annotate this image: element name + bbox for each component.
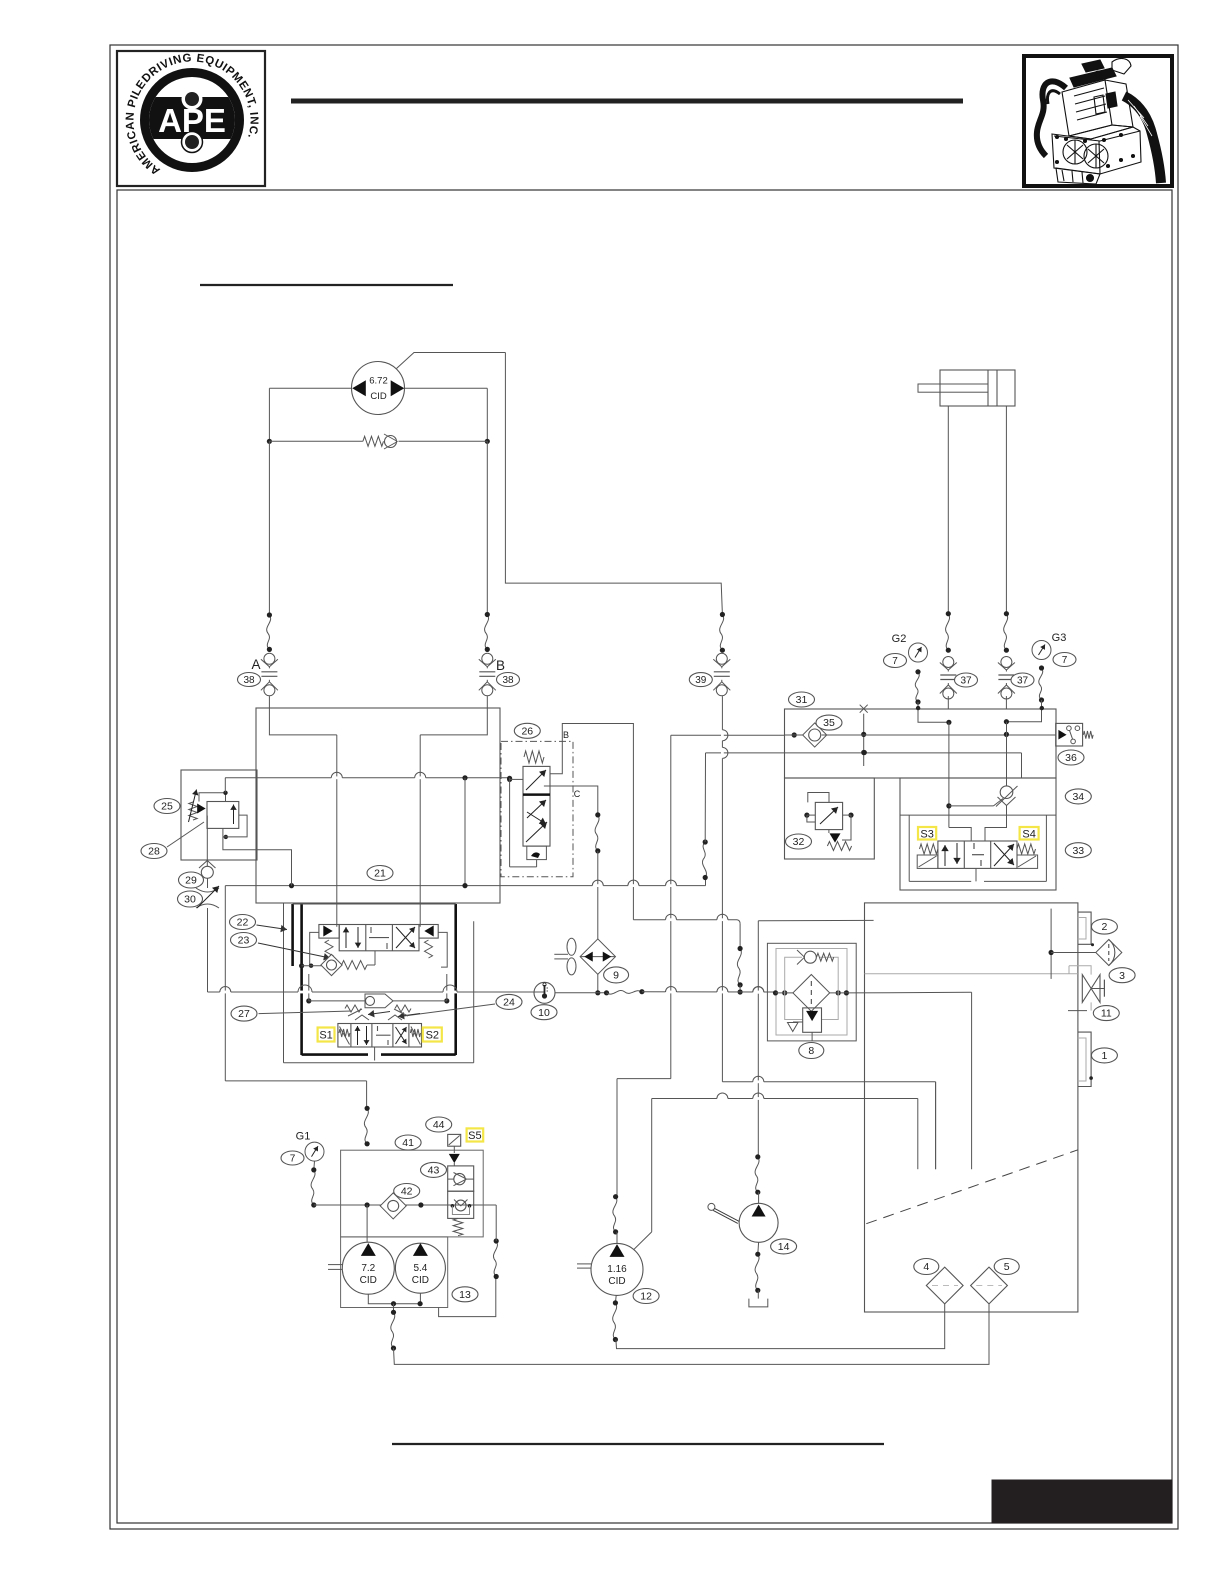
- leader 23: [258, 943, 330, 958]
- balloon 12: [633, 1289, 659, 1304]
- wire A work line down: [336, 735, 338, 927]
- hose pump suction: [391, 1312, 395, 1348]
- valve26 B drop to drain hose: [633, 919, 737, 921]
- svg-text:A: A: [251, 657, 260, 672]
- check ball 34: [946, 786, 1017, 809]
- hose cylinder cap line: [1004, 614, 1008, 651]
- header logo box: [117, 51, 265, 186]
- balloon 37: [1011, 673, 1034, 687]
- balloon 5: [994, 1259, 1019, 1275]
- directional valve 22: [309, 925, 447, 968]
- svg-text:CID: CID: [608, 1276, 625, 1287]
- balloon 25: [154, 799, 180, 814]
- wire coupling 37 right to manifold: [1005, 696, 1007, 708]
- balloon 7: [884, 654, 907, 668]
- svg-text:5: 5: [1004, 1261, 1010, 1273]
- main content box: [117, 190, 1172, 1523]
- solenoid S5 valve 44: [448, 1134, 461, 1166]
- svg-text:42: 42: [401, 1186, 413, 1198]
- cross mark X on block 31: [860, 705, 868, 713]
- balloon 11: [1093, 1006, 1119, 1021]
- hose case drain: [493, 1241, 497, 1277]
- balloon 2: [1091, 919, 1117, 934]
- balloon 9: [604, 967, 629, 983]
- svg-text:13: 13: [459, 1289, 471, 1301]
- balloon 1: [1091, 1048, 1117, 1063]
- balloon 8: [799, 1043, 824, 1059]
- svg-text:8: 8: [808, 1045, 814, 1057]
- hose pump pressure: [364, 1108, 368, 1144]
- svg-text:C: C: [574, 789, 581, 799]
- needle valve 30: [196, 886, 219, 908]
- balloon 28: [141, 844, 167, 859]
- tank dip tube from line y1081: [935, 1082, 937, 1169]
- svg-text:2: 2: [1101, 921, 1107, 933]
- cooler 9 with fan: [554, 938, 615, 975]
- APE logo: [124, 52, 259, 178]
- balloon 43: [421, 1162, 447, 1177]
- pressure switch 36: [1056, 723, 1093, 746]
- bold sub-block frame: [284, 903, 474, 1063]
- pump pressure line to sub-block: [225, 886, 366, 1109]
- header picture box: [1024, 56, 1172, 186]
- pump drive shaft: [328, 1264, 343, 1266]
- check valve relief 43 lower: [448, 1191, 474, 1236]
- solenoid valve S3 S4 sub-block: [908, 815, 910, 881]
- quick disconnect coupling A (38): [261, 653, 278, 696]
- main line left segment: [208, 991, 545, 993]
- wire valve26 C port: [544, 786, 598, 815]
- bottom-right black block: [992, 1480, 1172, 1523]
- balloon 10: [531, 1005, 557, 1020]
- wire valve tank ports: [975, 868, 977, 881]
- oil filter block 8: [767, 943, 856, 1041]
- manifold block 31: [785, 709, 1057, 778]
- pump 12 1.16 CID: [577, 1243, 643, 1295]
- svg-text:S3: S3: [920, 828, 933, 840]
- box13 case drain to S5 line: [439, 1277, 496, 1317]
- pump12 case line to tank: [652, 1099, 918, 1232]
- wire motor right port to B line: [405, 387, 488, 389]
- hand pump 14: [708, 1192, 778, 1242]
- schematic title underline: [200, 284, 453, 286]
- reservoir tank box: [865, 903, 1078, 1312]
- level gauge 2: [1078, 912, 1094, 946]
- hydraulic cylinder CYL1: [918, 370, 1015, 406]
- wire C line to cooler: [597, 886, 599, 940]
- main line center: [555, 990, 609, 995]
- balloon 42: [394, 1184, 420, 1199]
- svg-text:44: 44: [433, 1119, 445, 1131]
- svg-text:CID: CID: [360, 1275, 377, 1286]
- manifold block 32: [785, 778, 875, 859]
- svg-text:39: 39: [695, 675, 707, 686]
- wire A line upper: [268, 388, 270, 441]
- quick disconnect coupling 39: [713, 653, 730, 696]
- hose block31 drain: [739, 924, 741, 949]
- wire S3 P line: [949, 828, 971, 842]
- temperature gauge 10: [534, 982, 555, 1003]
- svg-text:7: 7: [290, 1154, 296, 1165]
- svg-text:11: 11: [1101, 1008, 1112, 1020]
- check valve 42: [380, 1193, 406, 1219]
- leader 28: [167, 822, 204, 847]
- manifold block 33: [900, 778, 1056, 890]
- wire A line to hose: [268, 441, 270, 615]
- sight gauge 1: [1078, 1032, 1093, 1086]
- svg-text:3: 3: [1119, 970, 1125, 982]
- wire G3 drop: [1006, 709, 1041, 722]
- hose gauge G3: [1039, 668, 1043, 700]
- svg-text:25: 25: [161, 801, 173, 813]
- svg-text:6.72: 6.72: [369, 376, 388, 387]
- bottom caption underline: [392, 1443, 884, 1445]
- wire work line S4 side: [1006, 722, 1008, 786]
- svg-text:26: 26: [521, 725, 533, 737]
- balloon 7: [281, 1151, 304, 1165]
- fill pump 3: [1049, 909, 1122, 979]
- balloon 7: [1053, 653, 1076, 667]
- svg-text:7.2: 7.2: [361, 1263, 375, 1274]
- svg-text:32: 32: [793, 836, 805, 848]
- hose B: [485, 615, 489, 650]
- pressure gauge G1: [305, 1142, 324, 1161]
- balloon 36: [1058, 750, 1084, 765]
- svg-text:30: 30: [184, 894, 196, 906]
- wire cooler to main line: [597, 974, 599, 993]
- svg-text:36: 36: [1065, 752, 1077, 764]
- wire S4 line: [985, 806, 1007, 842]
- tank symbol under hand pump: [749, 1290, 768, 1307]
- dual relief 27: [345, 1005, 411, 1016]
- hydraulic motor M1 6.72 CID: [352, 362, 405, 415]
- svg-text:G3: G3: [1052, 632, 1067, 644]
- svg-text:7: 7: [1062, 655, 1068, 666]
- wire needle valve to cooler line: [207, 878, 209, 888]
- wire coupling A to manifold: [268, 696, 270, 708]
- suction filter 5: [971, 1267, 1008, 1304]
- check valve 23 with spring: [299, 951, 375, 976]
- wire motor left port to A line: [269, 387, 351, 389]
- svg-text:35: 35: [823, 717, 835, 729]
- svg-text:APE: APE: [158, 102, 226, 139]
- suction filter 4: [926, 1267, 963, 1304]
- pump12 second port diagonal: [634, 1232, 652, 1249]
- wire rail to valve26 B port: [464, 778, 466, 886]
- svg-text:24: 24: [503, 997, 515, 1009]
- svg-text:S5: S5: [468, 1130, 481, 1142]
- wire crossover jumps: [220, 730, 764, 1099]
- vibro hammer picture: [1037, 59, 1161, 184]
- quick disconnect coupling 37 left: [940, 657, 957, 700]
- wire motor case drain to node: [397, 353, 506, 369]
- leader 22: [257, 925, 288, 930]
- hose G1: [313, 1161, 316, 1170]
- hose main line: [607, 989, 645, 994]
- pump suction drains: [368, 1293, 422, 1312]
- svg-text:10: 10: [538, 1007, 550, 1019]
- balloon 39: [689, 673, 712, 687]
- main line to tank: [846, 991, 971, 994]
- svg-text:31: 31: [796, 694, 808, 706]
- wire case drain down right side: [505, 353, 722, 615]
- svg-text:22: 22: [237, 917, 249, 929]
- tank return drop: [971, 992, 973, 1169]
- svg-text:37: 37: [960, 676, 972, 687]
- label S3: [918, 827, 936, 840]
- gauge line to pump manifold: [314, 1204, 496, 1206]
- valve 26 dash-dot enclosure: [501, 741, 573, 876]
- hand pump suction pickup: [758, 920, 873, 1157]
- svg-text:34: 34: [1072, 791, 1084, 803]
- wire X pilot down: [863, 714, 865, 766]
- svg-text:21: 21: [374, 868, 386, 880]
- shutoff valve 11: [1068, 966, 1104, 1011]
- pilot rail y778: [225, 777, 510, 779]
- svg-text:41: 41: [402, 1137, 414, 1149]
- hose drain rail to block31: [705, 878, 707, 886]
- balloon 21: [367, 866, 393, 881]
- relief block 25: [181, 770, 257, 860]
- balloon 41: [395, 1135, 421, 1150]
- balloon 14: [771, 1239, 797, 1254]
- balloon 29: [179, 872, 204, 888]
- svg-text:G1: G1: [296, 1131, 311, 1143]
- svg-text:38: 38: [502, 675, 514, 686]
- filter 8 bypass check: [785, 950, 839, 993]
- leader 27: [259, 1011, 353, 1014]
- svg-text:29: 29: [185, 875, 197, 887]
- suction line to filter 4: [616, 1303, 945, 1349]
- label S4: [1020, 827, 1039, 840]
- wire block31 internal rail 735 to switch: [864, 734, 1056, 736]
- check valve 29: [199, 860, 216, 878]
- svg-text:7: 7: [892, 656, 898, 667]
- svg-text:G2: G2: [892, 633, 907, 645]
- wire valve26 B port: [550, 724, 633, 920]
- wire G2 drop: [918, 709, 949, 723]
- balloon 4: [914, 1259, 939, 1275]
- hose C line: [595, 815, 599, 851]
- pump box 13: [341, 1237, 448, 1308]
- svg-text:B: B: [496, 658, 505, 673]
- hand pump hose upper: [755, 1157, 759, 1192]
- wire cylinder rod port down: [947, 406, 949, 614]
- hose cylinder rod line: [946, 614, 950, 651]
- balloon 32: [786, 834, 812, 849]
- svg-text:B: B: [563, 730, 569, 740]
- drain rail y886: [225, 885, 705, 887]
- hose gauge G2: [915, 672, 919, 702]
- manifold box 41: [341, 1150, 484, 1237]
- svg-text:CID: CID: [370, 391, 387, 402]
- filter 8 relief to tank: [785, 993, 839, 1041]
- svg-text:S1: S1: [319, 1030, 332, 1042]
- svg-text:37: 37: [1017, 676, 1029, 687]
- label S1: [318, 1028, 335, 1042]
- balloon 13: [452, 1287, 478, 1302]
- manifold block 21: [256, 708, 500, 903]
- svg-text:43: 43: [428, 1165, 440, 1177]
- coupling39 return line: [722, 696, 935, 1169]
- main line to block 8: [642, 991, 776, 993]
- balloon 23: [231, 933, 257, 948]
- label S2: [423, 1028, 442, 1042]
- wire cylinder cap port down: [1005, 406, 1007, 614]
- svg-text:33: 33: [1072, 845, 1084, 857]
- suction line to filter 5: [394, 1303, 990, 1364]
- svg-text:1.16: 1.16: [607, 1264, 627, 1275]
- pressure gauge G2: [909, 643, 928, 662]
- balloon 37: [955, 673, 978, 687]
- balloon 3: [1109, 968, 1135, 983]
- balloon 44: [426, 1117, 452, 1132]
- hose pump12 suction: [614, 1295, 617, 1303]
- svg-text:S2: S2: [426, 1030, 439, 1042]
- balloon 35: [816, 715, 842, 730]
- wire B work line down: [419, 735, 421, 927]
- balloon 22: [230, 915, 256, 930]
- balloon 26: [514, 723, 540, 738]
- wire coupling A into block: [269, 708, 336, 735]
- svg-text:9: 9: [613, 970, 619, 982]
- svg-text:14: 14: [778, 1241, 790, 1253]
- balloon 38: [497, 673, 520, 687]
- svg-text:12: 12: [640, 1291, 652, 1303]
- tank oil level dashed: [866, 1150, 1078, 1224]
- svg-text:CID: CID: [412, 1275, 429, 1286]
- shuttle valve 24: [306, 974, 449, 1008]
- wire valve26 left pilot: [507, 777, 537, 867]
- wire 42 line corner down: [495, 1205, 497, 1241]
- quick disconnect coupling B (38): [479, 653, 496, 696]
- pump 5.4 CID: [395, 1243, 445, 1293]
- balloon 31: [789, 692, 815, 707]
- wire pump7.2 feed: [366, 1205, 368, 1242]
- balloon 33: [1065, 843, 1091, 858]
- main pump 7.2 CID: [342, 1242, 394, 1294]
- pressure reducing valve in block 32: [804, 793, 853, 851]
- pilot relief valve 25 internals: [189, 778, 292, 886]
- crossport relief valve RV1: [267, 434, 490, 449]
- solenoid directional valve S3/S4: [917, 841, 1037, 868]
- balloon 27: [231, 1006, 257, 1021]
- svg-text:38: 38: [243, 675, 255, 686]
- check valve 35: [785, 723, 864, 747]
- header title rule: [291, 99, 963, 104]
- wire work line S3 side: [948, 722, 950, 827]
- wire tank rail into block31: [706, 752, 1022, 754]
- hose A: [267, 615, 271, 649]
- svg-text:27: 27: [238, 1008, 250, 1020]
- leader 24: [404, 1004, 495, 1016]
- svg-text:23: 23: [238, 935, 250, 947]
- pump12 pressure line to valve26: [617, 735, 785, 1196]
- wire coupling B into block: [420, 708, 487, 735]
- svg-text:5.4: 5.4: [413, 1263, 427, 1274]
- tank fluid line gray: [865, 973, 1078, 975]
- wire coupling B to manifold: [486, 696, 488, 708]
- pressure gauge G3: [1032, 641, 1051, 660]
- wire B line upper: [486, 388, 488, 441]
- hose pump12 top: [613, 1197, 617, 1232]
- proportional valve 26: [523, 751, 550, 867]
- balloon 34: [1065, 789, 1091, 804]
- wire S1S2 tank port down: [374, 1047, 376, 1061]
- check valve 43: [448, 1166, 474, 1191]
- wire coupling 37 left to manifold: [947, 696, 949, 708]
- svg-text:4: 4: [923, 1261, 929, 1273]
- wire B line to hose: [486, 441, 488, 614]
- hose to coupling 39: [720, 615, 724, 651]
- hand pump hose lower: [757, 1242, 760, 1254]
- svg-text:1: 1: [1101, 1050, 1107, 1062]
- svg-text:28: 28: [148, 846, 160, 858]
- svg-text:S4: S4: [1022, 828, 1035, 840]
- balloon 38: [238, 673, 261, 687]
- label S5: [467, 1128, 484, 1141]
- solenoid valve S1/S2: [338, 1015, 422, 1047]
- balloon 24: [496, 994, 522, 1009]
- balloon 30: [178, 891, 203, 907]
- quick disconnect coupling 37 right: [998, 657, 1015, 700]
